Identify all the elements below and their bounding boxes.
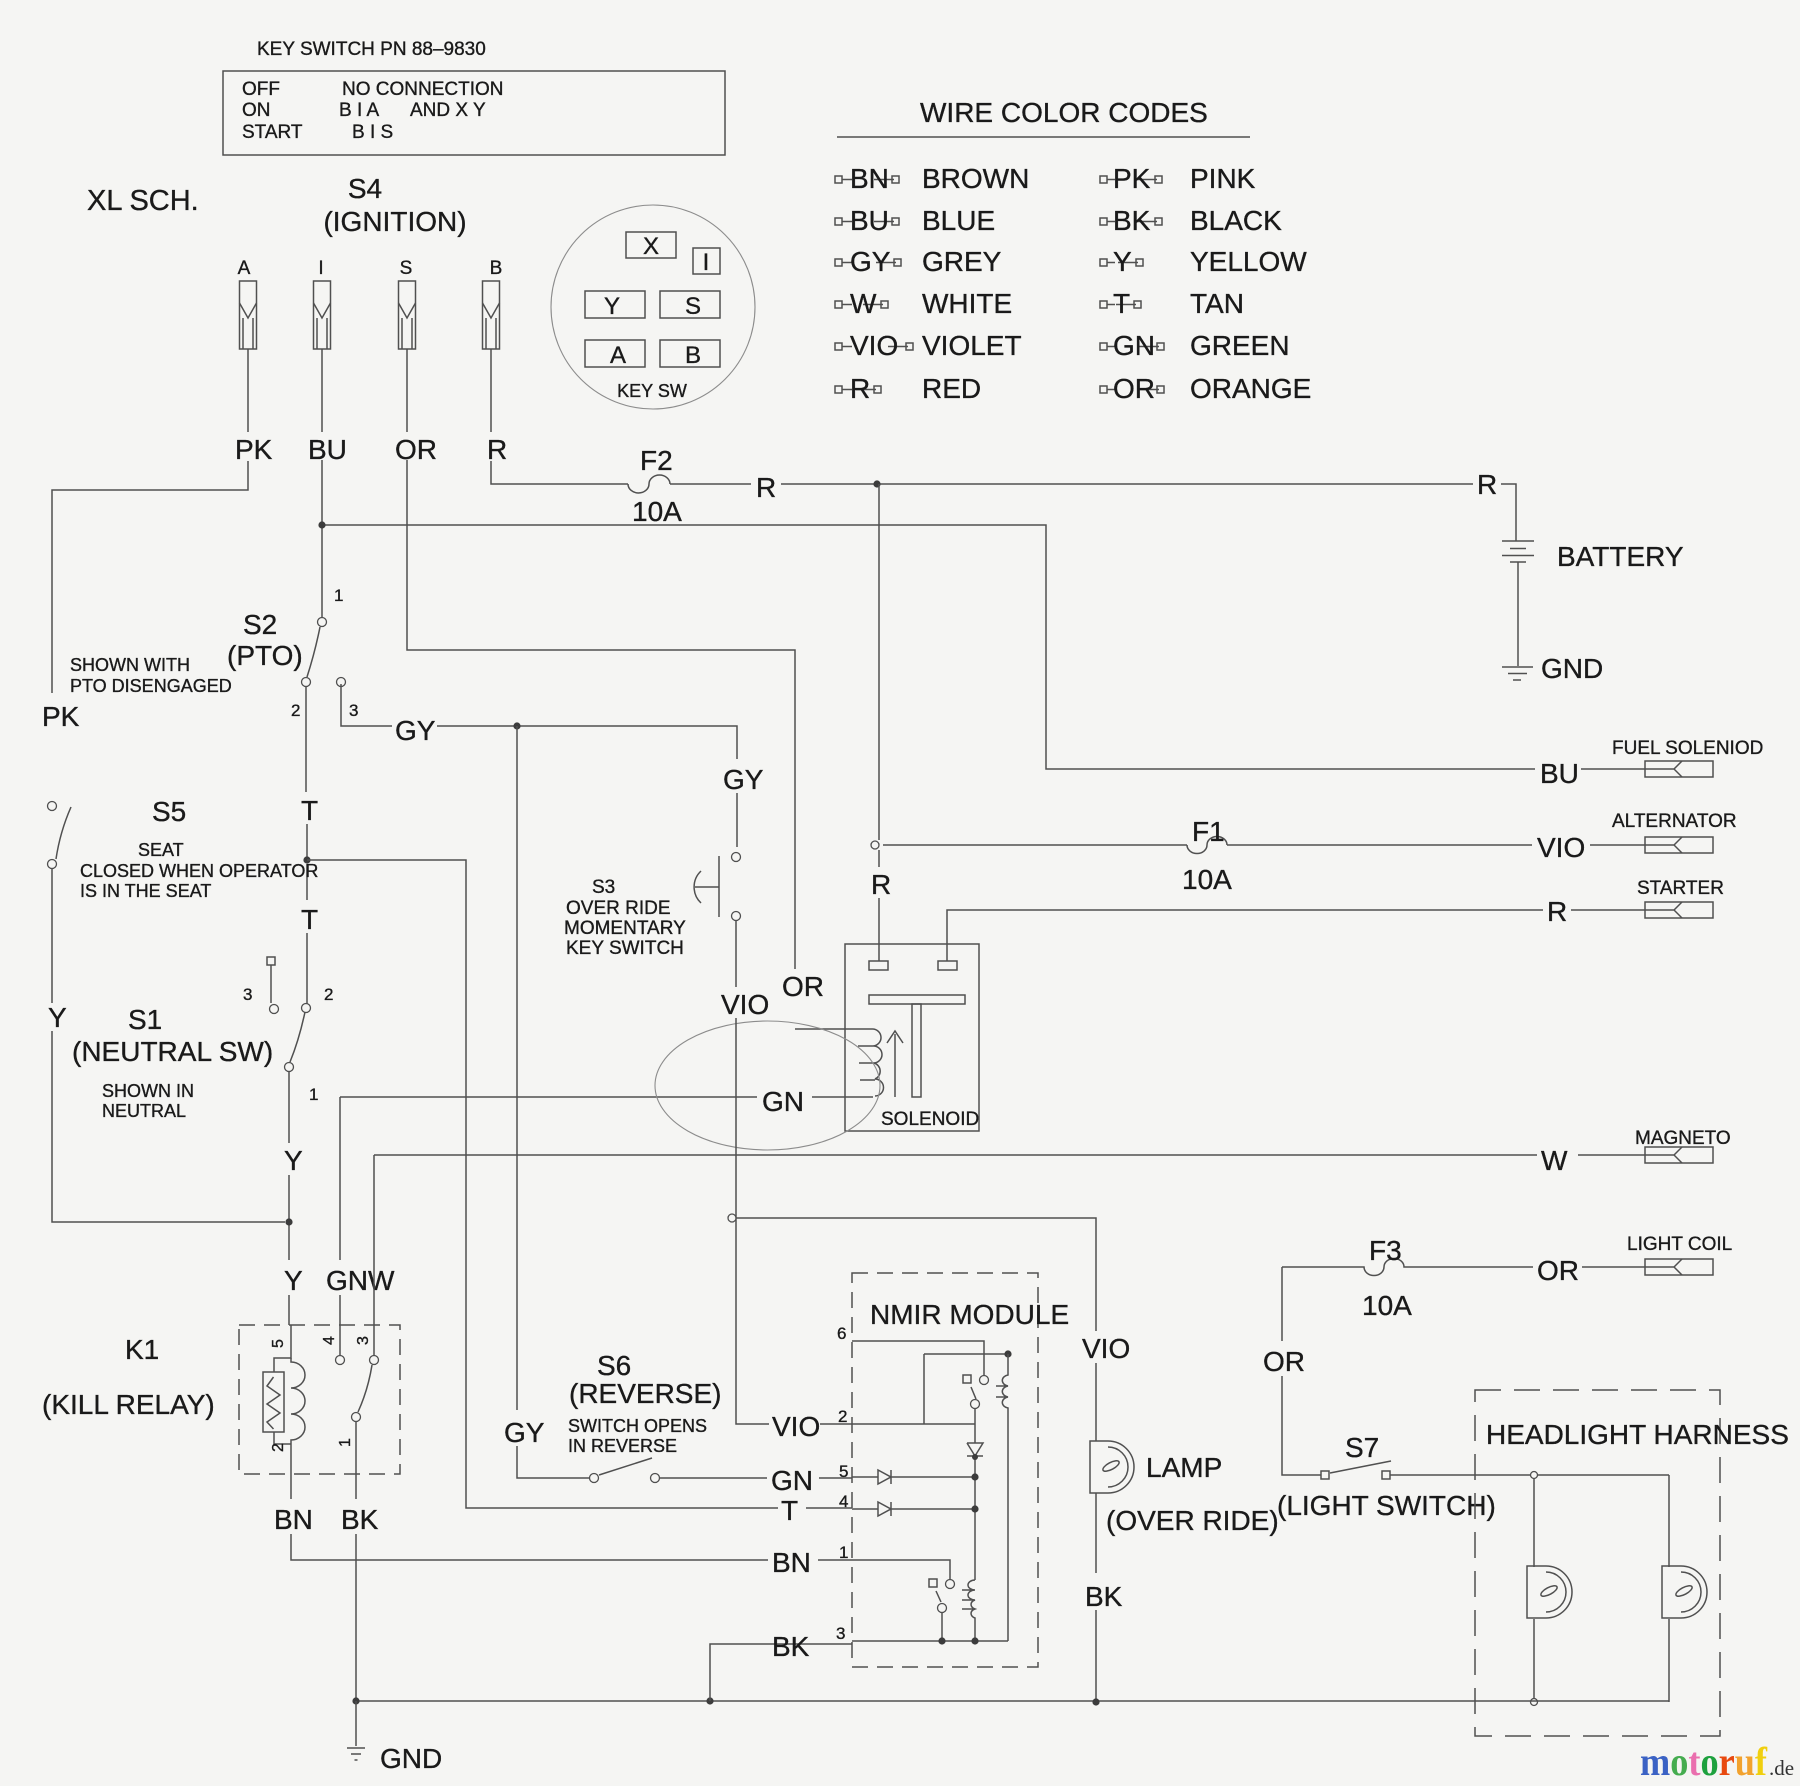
svg-text:4: 4 (839, 1492, 848, 1511)
svg-text:FUEL SOLENIOD: FUEL SOLENIOD (1612, 738, 1763, 759)
svg-text:SOLENOID: SOLENOID (881, 1109, 979, 1130)
svg-text:10A: 10A (1362, 1290, 1412, 1321)
legend entry BU BLUE (835, 218, 842, 225)
junction bus lamp (1092, 1698, 1099, 1705)
svg-text:PTO DISENGAGED: PTO DISENGAGED (70, 676, 232, 696)
switch S7 terminal right (1382, 1471, 1390, 1479)
svg-text:1: 1 (309, 1085, 318, 1104)
svg-text:K1: K1 (125, 1334, 159, 1365)
svg-text:F3: F3 (1369, 1235, 1402, 1266)
solenoid T plunger (869, 995, 965, 1004)
svg-text:ON: ON (242, 100, 271, 121)
switch S7 terminal left (1321, 1471, 1329, 1479)
switch S2 pin 2 (302, 678, 311, 687)
svg-text:T: T (1113, 288, 1130, 319)
switch S1 blade (290, 1012, 305, 1062)
junction GY (513, 722, 520, 729)
svg-text:MAGNETO: MAGNETO (1635, 1128, 1731, 1149)
wire BU to fuel solenoid (322, 525, 1645, 769)
svg-text:I: I (703, 249, 710, 276)
solenoid terminal right (938, 961, 957, 970)
svg-text:W: W (850, 288, 877, 319)
svg-text:R: R (871, 869, 891, 900)
connector alternator (1645, 837, 1713, 853)
switch S2 pin 3 (337, 678, 346, 687)
svg-text:NEUTRAL: NEUTRAL (102, 1101, 186, 1121)
connector starter (1645, 902, 1713, 918)
svg-text:Y: Y (1113, 246, 1132, 277)
svg-text:BU: BU (1540, 758, 1579, 789)
switch S3 contact bottom (732, 912, 741, 921)
key switch PN table box (223, 71, 725, 155)
svg-text:BN: BN (274, 1504, 313, 1535)
svg-text:KEY SW: KEY SW (617, 381, 687, 401)
svg-text:OR: OR (395, 434, 437, 465)
wire VIO from S3 (736, 921, 852, 1424)
svg-text:GND: GND (380, 1743, 442, 1774)
switch S2 pin 1 (318, 618, 327, 627)
svg-text:KEY SWITCH: KEY SWITCH (566, 938, 684, 959)
wire VIO alternator (883, 844, 1645, 846)
junction T/S5 (303, 856, 310, 863)
wire R from S4-B to F2 (491, 349, 628, 484)
svg-text:S5: S5 (152, 796, 186, 827)
svg-text:3: 3 (836, 1624, 845, 1643)
NMIR diode D1 (967, 1424, 983, 1580)
junction Y (285, 1218, 292, 1225)
svg-text:BU: BU (308, 434, 347, 465)
switch S3 plunger (695, 856, 719, 917)
svg-text:(NEUTRAL SW): (NEUTRAL SW) (72, 1036, 273, 1067)
svg-text:T: T (301, 795, 318, 826)
svg-text:(PTO): (PTO) (227, 640, 303, 671)
headlight left tap (1531, 1472, 1538, 1479)
module NMIR box (852, 1273, 1038, 1667)
switch S2 blade (307, 627, 320, 677)
switch S6 contact left (590, 1474, 599, 1483)
svg-text:T: T (781, 1495, 798, 1526)
svg-text:IS IN THE SEAT: IS IN THE SEAT (80, 881, 211, 901)
svg-text:S1: S1 (128, 1004, 162, 1035)
relay K1 resistor (263, 1372, 284, 1432)
switch S1 pin 2 (302, 1004, 311, 1013)
svg-text:10A: 10A (632, 496, 682, 527)
svg-text:3: 3 (243, 985, 252, 1004)
svg-text:2: 2 (270, 1443, 287, 1452)
svg-text:10A: 10A (1182, 864, 1232, 895)
fuse F1 (1187, 837, 1227, 854)
legend entry Y YELLOW (1100, 259, 1107, 266)
ground symbol (347, 1701, 365, 1760)
wire S7 to headlights (1390, 1474, 1669, 1476)
legend entry GY GREY (835, 259, 842, 266)
svg-text:S4: S4 (348, 173, 382, 204)
engine ellipse (655, 1021, 880, 1150)
svg-text:GY: GY (504, 1417, 545, 1448)
svg-text:VIO: VIO (1082, 1333, 1130, 1364)
svg-text:2: 2 (291, 701, 300, 720)
relay K1 pin1 (352, 1413, 361, 1422)
switch S5 contact top (48, 802, 57, 811)
svg-text:RED: RED (922, 373, 981, 404)
svg-text:Y: Y (284, 1265, 303, 1296)
svg-text:BK: BK (341, 1504, 379, 1535)
wire NMIR pin3 to bus (710, 1644, 852, 1701)
solenoid terminal left (869, 961, 888, 970)
svg-text:PINK: PINK (1190, 163, 1256, 194)
svg-text:BROWN: BROWN (922, 163, 1029, 194)
svg-text:R: R (487, 434, 507, 465)
svg-text:SEAT: SEAT (138, 840, 184, 860)
svg-text:START: START (242, 122, 303, 143)
switch S3 contact top (732, 853, 741, 862)
svg-text:ORANGE: ORANGE (1190, 373, 1311, 404)
svg-text:BLUE: BLUE (922, 205, 995, 236)
svg-text:R: R (756, 472, 776, 503)
legend entry PK PINK (1100, 176, 1107, 183)
wire Y from S5 (52, 869, 285, 1222)
junction BU (318, 521, 325, 528)
svg-text:B: B (490, 258, 503, 279)
wire BU from S4-I (321, 349, 323, 617)
svg-text:OFF: OFF (242, 79, 280, 100)
headlight harness box (1475, 1390, 1720, 1736)
svg-text:(LIGHT SWITCH): (LIGHT SWITCH) (1277, 1490, 1496, 1521)
svg-text:GN: GN (771, 1465, 813, 1496)
svg-text:GN: GN (1113, 330, 1155, 361)
wire PK from S4-A (52, 349, 248, 693)
svg-text:R: R (1477, 469, 1497, 500)
fuse F3 (1282, 1259, 1645, 1276)
svg-text:BLACK: BLACK (1190, 205, 1282, 236)
connector magneto (1645, 1147, 1713, 1163)
wire Y from S1 pin1 (288, 1072, 290, 1325)
wire OR to S7 (1282, 1267, 1321, 1475)
tap to lamp wire (728, 1214, 736, 1222)
NMIR relay2 coil (962, 1580, 975, 1641)
svg-text:IN REVERSE: IN REVERSE (568, 1436, 677, 1456)
svg-text:S6: S6 (597, 1350, 631, 1381)
wire T from S2 pin2 (306, 687, 307, 1004)
connector S4-S (399, 281, 416, 349)
svg-text:2: 2 (838, 1407, 847, 1426)
svg-text:S: S (685, 293, 701, 320)
svg-text:BATTERY: BATTERY (1557, 541, 1684, 572)
svg-text:B I A: B I A (339, 100, 379, 121)
svg-text:WHITE: WHITE (922, 288, 1012, 319)
svg-text:GREY: GREY (922, 246, 1002, 277)
svg-text:KEY SWITCH PN 88–9830: KEY SWITCH PN 88–9830 (257, 39, 486, 60)
legend entry BN BROWN (835, 176, 842, 183)
svg-text:VIOLET: VIOLET (922, 330, 1022, 361)
svg-text:VIO: VIO (721, 989, 769, 1020)
ground GND battery (1502, 667, 1533, 680)
svg-text:CLOSED WHEN OPERATOR: CLOSED WHEN OPERATOR (80, 861, 318, 881)
relay K1 resistor bottom (274, 1432, 291, 1444)
svg-text:LAMP: LAMP (1146, 1452, 1222, 1483)
svg-text:VIO: VIO (1537, 832, 1585, 863)
wire GNW to K1 pin4 (339, 1097, 341, 1355)
legend entry OR ORANGE (1100, 386, 1107, 393)
relay K1 box (239, 1325, 400, 1474)
wire to lamp (736, 1218, 1096, 1441)
junction bus NMIR (706, 1697, 713, 1704)
headlight bulb right (1662, 1566, 1681, 1618)
svg-text:HEADLIGHT HARNESS: HEADLIGHT HARNESS (1486, 1419, 1789, 1450)
svg-text:YELLOW: YELLOW (1190, 246, 1307, 277)
connector light coil (1645, 1259, 1713, 1275)
svg-text:4: 4 (321, 1336, 338, 1345)
wire R to solenoid (878, 484, 880, 961)
svg-text:1: 1 (334, 586, 343, 605)
svg-text:5: 5 (270, 1339, 287, 1348)
NMIR inner top wire (924, 1354, 1008, 1424)
wire R to battery (670, 484, 1516, 541)
svg-text:1: 1 (839, 1543, 848, 1562)
wire starter from solenoid (947, 910, 1645, 961)
svg-text:OR: OR (1113, 373, 1155, 404)
svg-text:NMIR MODULE: NMIR MODULE (870, 1299, 1069, 1330)
wire GY down to S6 (517, 726, 590, 1478)
connector S4-B (483, 281, 500, 349)
svg-text:(REVERSE): (REVERSE) (569, 1378, 721, 1409)
legend entry BK BLACK (1100, 218, 1107, 225)
switch S6 blade (599, 1458, 652, 1475)
svg-text:1: 1 (337, 1438, 354, 1447)
wire W magneto (374, 1154, 1645, 1156)
switch S1 pin 3 (267, 957, 275, 965)
switch S5 blade (56, 807, 71, 859)
wire OR from S4-S (407, 349, 795, 969)
svg-text:R: R (850, 373, 870, 404)
wire GN to solenoid coil (340, 1096, 873, 1098)
svg-text:GREEN: GREEN (1190, 330, 1290, 361)
relay K1 coil (291, 1358, 305, 1444)
svg-text:TAN: TAN (1190, 288, 1244, 319)
svg-text:GY: GY (395, 715, 436, 746)
svg-text:BU: BU (850, 205, 889, 236)
svg-text:NO CONNECTION: NO CONNECTION (342, 79, 504, 100)
svg-text:Y: Y (48, 1002, 67, 1033)
switch S1 pin 1 (285, 1063, 294, 1072)
svg-text:I: I (318, 258, 323, 279)
lamp (over ride) (1090, 1441, 1108, 1493)
wire GY from S2 pin3 (341, 684, 737, 847)
svg-text:(OVER RIDE): (OVER RIDE) (1106, 1505, 1279, 1536)
NMIR relay1 coil (996, 1354, 1008, 1641)
svg-text:2: 2 (324, 985, 333, 1004)
svg-text:XL SCH.: XL SCH. (87, 185, 199, 217)
wire BK (355, 1422, 357, 1701)
svg-text:LIGHT COIL: LIGHT COIL (1627, 1234, 1732, 1255)
svg-text:BK: BK (772, 1631, 810, 1662)
svg-text:GNW: GNW (326, 1265, 395, 1296)
connector S4-A (240, 281, 257, 349)
svg-text:W: W (1541, 1145, 1568, 1176)
switch S6 contact right (651, 1474, 660, 1483)
fuse F2 (628, 475, 670, 493)
svg-text:OR: OR (1263, 1346, 1305, 1377)
svg-text:GY: GY (723, 764, 764, 795)
svg-text:STARTER: STARTER (1637, 878, 1724, 899)
svg-text:(KILL RELAY): (KILL RELAY) (42, 1389, 215, 1420)
headlight bulb left (1527, 1566, 1546, 1618)
svg-text:ALTERNATOR: ALTERNATOR (1612, 811, 1737, 832)
ground bus (356, 1700, 1669, 1702)
legend entry T TAN (1100, 301, 1107, 308)
solenoid box (845, 944, 979, 1131)
junction R/solenoid (873, 480, 880, 487)
relay K1 pin3 (370, 1356, 379, 1365)
svg-text:OVER RIDE: OVER RIDE (566, 898, 671, 919)
relay K1 pin4 (336, 1356, 345, 1365)
headlight right wire (1668, 1475, 1670, 1702)
svg-text:PK: PK (1113, 163, 1151, 194)
legend entry R RED (835, 386, 842, 393)
battery (1502, 541, 1534, 562)
wire T to NMIR pin4 (307, 860, 852, 1508)
svg-text:WIRE COLOR CODES: WIRE COLOR CODES (920, 97, 1208, 128)
headlight left bulb wire (1533, 1478, 1535, 1699)
svg-text:R: R (1547, 896, 1567, 927)
relay K1 blade (358, 1365, 372, 1412)
connector fuel solenoid (1645, 761, 1713, 777)
wire K1 pin3 to W (373, 1155, 375, 1355)
relay K1 coil feed (274, 1325, 291, 1372)
svg-text:GND: GND (1541, 653, 1603, 684)
svg-text:GY: GY (850, 246, 891, 277)
svg-text:BN: BN (850, 163, 889, 194)
svg-text:VIO: VIO (772, 1411, 820, 1442)
connector S4-I (314, 281, 331, 349)
svg-text:(IGNITION): (IGNITION) (323, 206, 466, 237)
svg-text:X: X (643, 233, 659, 260)
NMIR relay2 contact (929, 1579, 937, 1587)
legend entry VIO VIOLET (835, 343, 842, 350)
svg-text:SWITCH OPENS: SWITCH OPENS (568, 1416, 707, 1436)
svg-text:MOMENTARY: MOMENTARY (564, 918, 686, 939)
solenoid arrow (887, 1031, 903, 1097)
headlight left bottom tap (1531, 1699, 1538, 1706)
svg-text:GN: GN (762, 1086, 804, 1117)
svg-text:6: 6 (837, 1324, 846, 1343)
NMIR relay1 contact (963, 1375, 971, 1383)
svg-text:F1: F1 (1192, 816, 1225, 847)
svg-text:PK: PK (235, 434, 273, 465)
wire BN (291, 1444, 852, 1560)
svg-text:SHOWN IN: SHOWN IN (102, 1081, 194, 1101)
svg-text:OR: OR (782, 971, 824, 1002)
svg-text:BN: BN (772, 1547, 811, 1578)
svg-text:B I S: B I S (352, 122, 393, 143)
legend entry GN GREEN (1100, 343, 1107, 350)
svg-text:S2: S2 (243, 609, 277, 640)
junction bus BK (352, 1697, 359, 1704)
svg-text:S: S (400, 258, 413, 279)
svg-text:OR: OR (1537, 1255, 1579, 1286)
svg-text:SHOWN WITH: SHOWN WITH (70, 655, 190, 675)
svg-text:B: B (685, 342, 701, 369)
wire BK lamp (1095, 1493, 1097, 1702)
solenoid coil (795, 1029, 884, 1096)
svg-text:VIO: VIO (850, 330, 898, 361)
svg-text:A: A (610, 342, 626, 369)
svg-text:S7: S7 (1345, 1432, 1379, 1463)
svg-text:3: 3 (355, 1336, 372, 1345)
svg-text:F2: F2 (640, 445, 673, 476)
switch S7 blade (1330, 1461, 1391, 1473)
svg-text:Y: Y (284, 1145, 303, 1176)
key switch connector U1 (KEY SW) (551, 205, 755, 409)
legend entry W WHITE (835, 301, 842, 308)
svg-text:PK: PK (42, 701, 80, 732)
wire GN to NMIR pin5 (659, 1477, 852, 1479)
svg-text:A: A (238, 258, 251, 279)
svg-text:motoruf: motoruf (1640, 1739, 1768, 1784)
svg-text:Y: Y (604, 293, 620, 320)
svg-text:3: 3 (349, 701, 358, 720)
svg-text:BK: BK (1113, 205, 1151, 236)
svg-text:.de: .de (1769, 1756, 1794, 1780)
switch S5 contact bottom (48, 860, 57, 869)
svg-text:BK: BK (1085, 1581, 1123, 1612)
svg-text:S3: S3 (592, 877, 615, 898)
svg-text:AND X Y: AND X Y (410, 100, 486, 121)
svg-text:T: T (301, 904, 318, 935)
